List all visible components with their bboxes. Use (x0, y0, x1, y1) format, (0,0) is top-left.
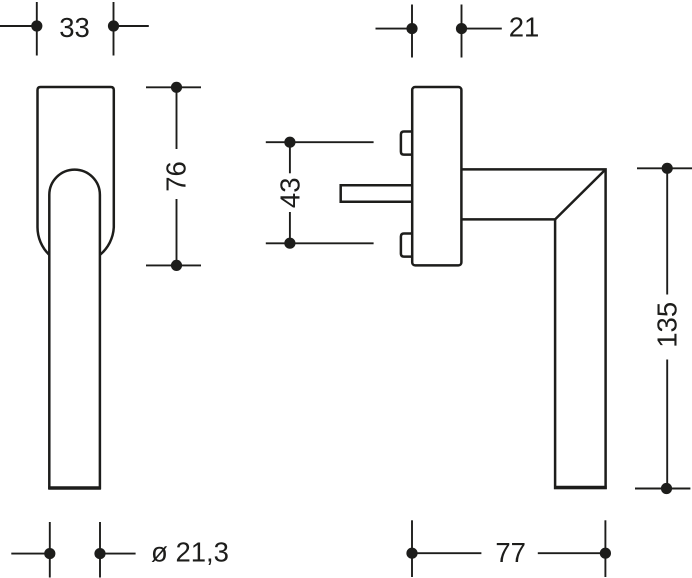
svg-text:77: 77 (495, 537, 526, 568)
svg-text:ø 21,3: ø 21,3 (151, 537, 229, 568)
svg-text:76: 76 (161, 161, 192, 192)
svg-text:43: 43 (274, 178, 305, 209)
svg-text:33: 33 (59, 12, 90, 43)
svg-text:21: 21 (509, 12, 540, 43)
svg-text:135: 135 (651, 302, 682, 348)
